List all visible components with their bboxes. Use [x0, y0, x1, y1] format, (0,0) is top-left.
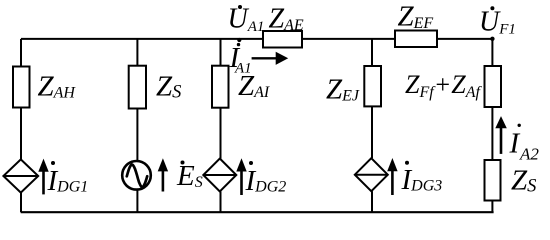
wire branch1 bottom	[20, 193, 22, 213]
arrow IA1	[252, 52, 289, 65]
svg-text:I: I	[509, 128, 521, 160]
wire branch1 mid	[20, 108, 22, 161]
wire branch4 bottom	[371, 191, 373, 212]
svg-text:A1: A1	[234, 61, 252, 77]
node F1 junction dot	[490, 37, 494, 41]
wire branch3 vertical	[220, 39, 222, 66]
arrow IDG1	[38, 159, 48, 195]
resistor ZAH	[13, 67, 30, 108]
wire branch3 mid	[220, 108, 222, 159]
label UF1	[479, 6, 516, 37]
wire branch5 mid	[491, 107, 493, 160]
label IDG1	[47, 161, 89, 197]
impedance ZAE series box	[263, 31, 302, 48]
wire branch4 mid	[371, 106, 373, 158]
wire top bus	[21, 38, 493, 40]
current source IDG3 diamond	[355, 158, 388, 191]
resistor ZS source	[129, 66, 146, 109]
wire branch2 mid	[136, 109, 138, 162]
wire bottom bus	[21, 211, 494, 213]
node A1 junction dot	[237, 38, 241, 42]
wire branch2 bottom	[136, 190, 138, 213]
current source IDG2 diamond	[203, 159, 236, 192]
label IA2	[509, 124, 540, 164]
wire branch5 vertical	[491, 39, 493, 66]
arrow ES	[158, 158, 168, 191]
wire branch3 bottom	[220, 192, 222, 213]
impedance ZFf+ZAf box	[485, 66, 502, 107]
label IDG3	[401, 161, 443, 196]
svg-text:A2: A2	[519, 145, 539, 164]
label IA1	[229, 42, 252, 76]
current source IDG1 diamond	[3, 159, 38, 192]
arrow IDG2	[236, 158, 246, 195]
resistor ZAI	[212, 66, 229, 108]
arrow IDG3	[387, 158, 397, 195]
resistor ZS right	[485, 160, 501, 201]
impedance ZEF series box	[395, 31, 437, 48]
arrow IA2	[495, 116, 507, 154]
resistor ZEJ	[364, 66, 381, 106]
label ES	[176, 160, 203, 192]
wire branch1 vertical	[20, 39, 22, 67]
label IDG2	[245, 161, 287, 197]
label UA1	[228, 4, 265, 35]
wire branch5 bottom	[491, 201, 493, 213]
voltage source ES circle	[122, 161, 151, 190]
wire branch2 vertical	[136, 39, 138, 66]
wire branch4 vertical	[371, 39, 373, 66]
